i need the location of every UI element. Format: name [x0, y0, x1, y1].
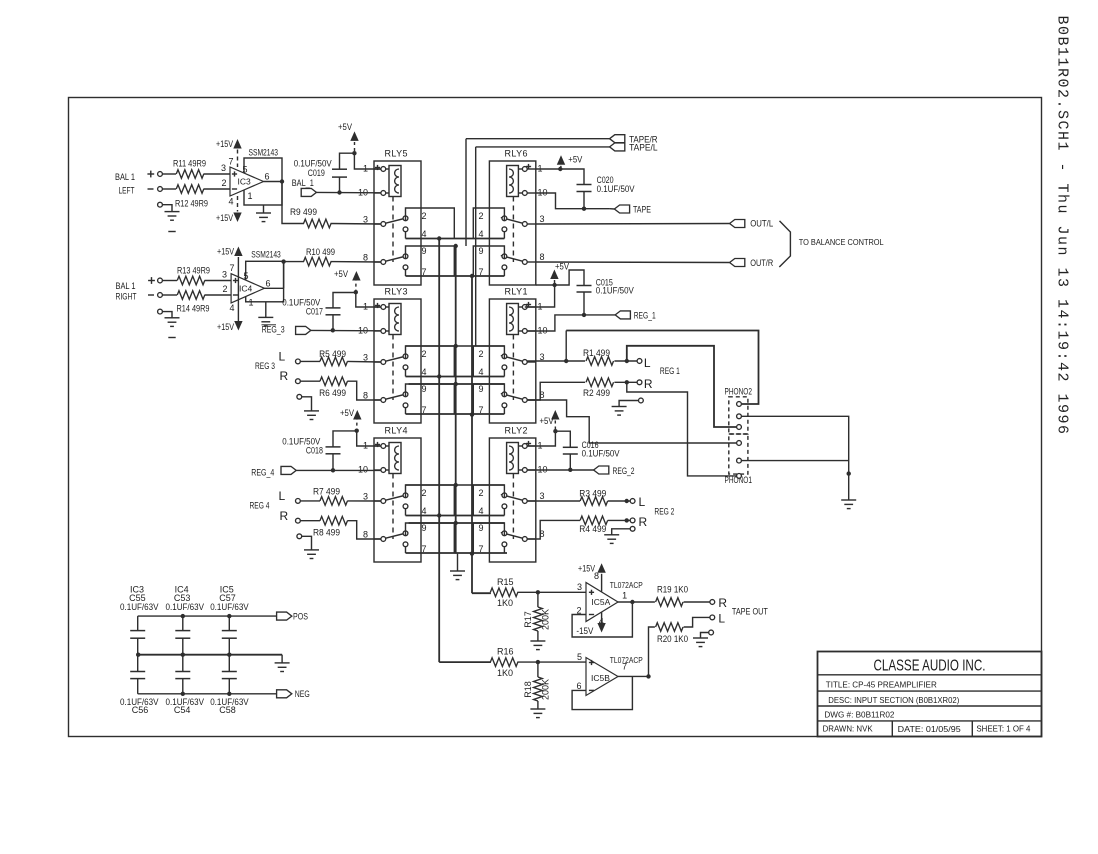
wire R to R6 [300, 380, 320, 382]
wire R19 to R terminal [684, 601, 710, 603]
+15V supply arrow top IC4 [234, 247, 242, 257]
svg-text:R6 499: R6 499 [319, 388, 346, 398]
wire RLY2 pin3 to R3 [527, 500, 580, 502]
svg-text:+5V: +5V [340, 408, 354, 418]
junction REG_4 cap [331, 468, 335, 472]
resistor R16 1K0 [490, 658, 517, 667]
svg-text:4: 4 [479, 229, 484, 239]
ground phono [841, 499, 856, 501]
ground stub terminal BAL1 right [158, 309, 163, 314]
resistor R17 200K [537, 592, 539, 607]
svg-text:+15V: +15V [216, 213, 233, 223]
wire R1 to L [614, 360, 637, 362]
resistor R1 499 [586, 357, 614, 366]
junction IC4 output corner [281, 259, 285, 263]
svg-text:RLY6: RLY6 [505, 149, 528, 159]
RLY3 pin 1 terminal [374, 306, 381, 308]
RLY1 outline [489, 299, 535, 423]
RLY6 pin 10 terminal [518, 192, 522, 194]
relay RLY6 [473, 149, 547, 286]
wire IC5B output [618, 675, 649, 677]
resistor R19 1K0 [656, 598, 684, 607]
junction mid C53 [181, 653, 185, 657]
svg-text:1: 1 [249, 298, 254, 308]
RLY2 pin 1 terminal [518, 445, 522, 447]
wire mid ground rail [138, 654, 282, 656]
RLY6 common pin 8 contact [527, 261, 536, 263]
+5V supply row3 right [551, 410, 559, 420]
wire IC4 output to R10 [264, 287, 283, 289]
terminal R REG4 [296, 518, 301, 523]
svg-text:6: 6 [576, 681, 581, 691]
junction bus B row3 upper [454, 483, 458, 487]
RLY3 pin 10 terminal [374, 330, 381, 332]
ground cap bank [281, 655, 283, 663]
svg-text:2: 2 [221, 178, 226, 188]
wire pin7 bus row2 [406, 413, 505, 415]
svg-text:PHONO2: PHONO2 [725, 387, 753, 397]
RLY5 common pin 3 contact [374, 223, 381, 225]
svg-text:REG_4: REG_4 [251, 467, 274, 477]
svg-text:L: L [639, 495, 646, 509]
svg-text:POS: POS [293, 612, 308, 622]
RLY5 contact circles upper [403, 216, 408, 221]
op-amp IC3 SSM2143 [228, 148, 282, 207]
wire R2 to R [614, 381, 637, 383]
svg-text:+15V: +15V [578, 563, 595, 573]
terminal R tape out [710, 600, 715, 605]
wire TAPE/R to bus C [466, 138, 610, 140]
svg-text:DRAWN: NVK: DRAWN: NVK [823, 723, 873, 733]
RLY2 armature link [512, 474, 514, 540]
junction bus D row1 [470, 274, 474, 278]
ground terminal REG4 [297, 534, 302, 539]
wire pin7 bus row3 [406, 552, 508, 554]
svg-text:R5 499: R5 499 [319, 349, 346, 359]
junction +5V row1 left [352, 151, 356, 155]
svg-text:SSM2143: SSM2143 [251, 250, 281, 260]
junction bus A row1 [437, 236, 441, 240]
port TAPE/R [610, 135, 625, 143]
svg-text:R13 49R9: R13 49R9 [177, 266, 210, 276]
ground terminal tape out [709, 630, 714, 635]
svg-text:7: 7 [622, 662, 627, 672]
title block desc row [818, 705, 1042, 707]
wire - input to R12 [162, 188, 176, 190]
svg-text:0.1UF/50V: 0.1UF/50V [597, 184, 635, 194]
title block title row [818, 690, 1042, 692]
wire L to R7 [300, 500, 320, 502]
RLY3 contact wiring box upper [406, 346, 455, 377]
+15V supply arrow bottom IC3 [233, 213, 241, 223]
svg-text:R: R [280, 509, 289, 523]
RLY6 contact wiring box lower [473, 246, 504, 276]
svg-text:R7 499: R7 499 [313, 487, 340, 497]
svg-text:3: 3 [363, 492, 368, 502]
svg-text:4: 4 [422, 367, 427, 377]
title block sheet cell [971, 721, 973, 737]
svg-text:C56: C56 [132, 705, 149, 715]
RLY1 contact wiring box lower [473, 384, 504, 414]
svg-text:4: 4 [479, 506, 484, 516]
ground tape out [693, 637, 708, 639]
svg-text:R9 499: R9 499 [290, 207, 317, 217]
ground BAL1 right [165, 317, 180, 319]
junction +5V RLY6 pin1 [558, 167, 562, 171]
svg-text:R10 499: R10 499 [306, 247, 335, 257]
svg-text:2: 2 [222, 284, 227, 294]
svg-text:+5V: +5V [540, 416, 554, 426]
junction L REG2 [625, 499, 629, 503]
wire + input to R11 [162, 173, 176, 175]
capacitor C53 [182, 616, 184, 631]
capacitor C54 [182, 655, 184, 672]
RLY5 outline [374, 161, 421, 285]
+15V supply arrow bottom IC4 [234, 321, 242, 331]
svg-text:IC5B: IC5B [591, 673, 610, 683]
RLY2 common pin 3 contact [527, 500, 536, 502]
RLY3 common pin 3 contact [374, 361, 381, 363]
RLY4 coil [389, 443, 401, 474]
terminal - (BAL1 right cold) [148, 294, 154, 296]
RLY4 outline [374, 438, 421, 562]
terminal R REG3 [296, 379, 301, 384]
RLY5 common pin 8 contact [374, 261, 381, 263]
svg-text:+5V: +5V [555, 261, 569, 271]
resistor R5 499 [320, 357, 348, 366]
wire IC5B feedback [572, 676, 632, 709]
svg-text:0.1UF/63V: 0.1UF/63V [210, 602, 249, 612]
svg-text:8: 8 [363, 253, 368, 263]
wire L to R5 [300, 360, 320, 362]
svg-text:8: 8 [540, 252, 545, 262]
RLY4 contact circles lower [403, 531, 408, 536]
junction R16 R18 [536, 660, 540, 664]
PHONO2 pin 3 [736, 424, 741, 429]
wire RLY1 pin8 to R2 [527, 382, 585, 400]
relay RLY5 [358, 149, 454, 286]
RLY2 contact circles lower [502, 531, 507, 536]
RLY1 pin 1 terminal [518, 306, 522, 308]
IC4 triangle [231, 274, 264, 303]
svg-text:4: 4 [479, 367, 484, 377]
svg-text:5: 5 [244, 271, 249, 281]
wire pin7 bus row1 [406, 275, 505, 277]
ground BAL1 left [165, 211, 180, 213]
resistor R13 49R9 [177, 276, 205, 285]
RLY1 coil [507, 304, 519, 335]
wire RLY2 pin1 to +5V [527, 431, 555, 446]
svg-text:R17: R17 [523, 611, 533, 628]
RLY2 coil [507, 443, 519, 474]
svg-text:R1 499: R1 499 [583, 348, 610, 358]
svg-text:+15V: +15V [217, 247, 234, 257]
RLY6 outline [489, 161, 535, 285]
wire R8 to RLY4 pin8 [347, 521, 381, 539]
svg-text:L: L [279, 350, 286, 364]
ground REG4 [304, 549, 319, 551]
op-amp IC5B TL072ACP [576, 655, 643, 696]
RLY1 common pin 3 contact [527, 361, 536, 363]
svg-text:BAL_1: BAL_1 [292, 178, 314, 188]
svg-text:2: 2 [479, 211, 484, 221]
PHONO2 pin 2 [737, 414, 742, 419]
vertical bus C tape R [465, 139, 467, 246]
svg-text:REG_3: REG_3 [262, 325, 285, 335]
wire R10 to RLY5 pin8 [331, 261, 381, 263]
svg-text:REG_1: REG_1 [634, 310, 656, 320]
svg-text:2: 2 [479, 488, 484, 498]
port OUT/L [730, 220, 745, 228]
wire BAL_1 to RLY5 pin10 [316, 191, 381, 193]
resistor R3 499 [580, 497, 608, 506]
svg-text:2: 2 [422, 488, 427, 498]
vertical bus D [471, 276, 473, 593]
svg-text:REG 4: REG 4 [250, 500, 270, 510]
RLY5 contact wiring box lower [406, 246, 455, 276]
RLY2 outline [489, 438, 535, 562]
wire R6 to RLY3 pin8 [347, 381, 381, 400]
wire + input to R13 [162, 280, 177, 282]
+15V supply arrow top IC3 [233, 139, 241, 149]
wire pin9 bus row2 [409, 383, 505, 385]
svg-text:10: 10 [358, 465, 368, 475]
svg-text:2: 2 [479, 349, 484, 359]
wire RLY6 pin10 to TAPE [536, 193, 610, 209]
svg-text:L: L [279, 489, 286, 503]
svg-text:TO BALANCE CONTROL: TO BALANCE CONTROL [799, 237, 884, 247]
svg-text:0.1UF/50V: 0.1UF/50V [582, 449, 620, 459]
svg-text:+5V: +5V [568, 154, 582, 164]
wire RLY6 pin1 to +5V [536, 168, 561, 170]
svg-text:BAL 1: BAL 1 [116, 281, 136, 291]
wire RLY6 bottom to +5V [536, 284, 555, 286]
port OUT/R [730, 259, 745, 267]
ground IC4 package [265, 302, 267, 318]
capacitor C017 0.1UF/50V [333, 293, 356, 308]
svg-text:0.1UF/63V: 0.1UF/63V [120, 602, 159, 612]
junction BAL_1 cap [337, 190, 341, 194]
wire IC5A output [618, 601, 655, 603]
junction bus D row3 [470, 551, 474, 555]
RLY1 contact circles lower [502, 392, 507, 397]
terminal L REG2 [630, 499, 635, 504]
wire R to R8 [300, 520, 320, 522]
svg-text:DATE: 01/05/95: DATE: 01/05/95 [898, 724, 961, 734]
svg-text:1: 1 [248, 191, 253, 201]
RLY4 pin 1 terminal [374, 445, 381, 447]
junction bus B row2 lower [454, 382, 458, 386]
svg-text:REG 2: REG 2 [654, 507, 674, 517]
resistor R9 499 [304, 219, 332, 228]
capacitor C020 0.1UF/50V [560, 169, 584, 185]
RLY3 armature link [392, 335, 394, 401]
svg-text:BAL 1: BAL 1 [115, 172, 135, 182]
wire R12 to IC3 pin2 [204, 188, 231, 190]
svg-text:1K0: 1K0 [497, 668, 513, 678]
resistor R8 499 [320, 516, 348, 525]
wire pin4 bus row3 [406, 515, 505, 517]
svg-text:CLASSE AUDIO INC.: CLASSE AUDIO INC. [874, 658, 986, 675]
svg-text:R2 499: R2 499 [583, 388, 610, 398]
svg-text:9: 9 [422, 523, 427, 533]
capacitor C016 0.1UF/50V [555, 431, 570, 447]
svg-text:R: R [644, 377, 653, 391]
svg-text:SHEET: 1 OF 4: SHEET: 1 OF 4 [976, 723, 1030, 733]
svg-text:RIGHT: RIGHT [116, 292, 137, 302]
junction bus B row2 upper [454, 344, 458, 348]
svg-text:9: 9 [422, 384, 427, 394]
resistor R4 499 [580, 516, 608, 525]
wire phono2 pin2 to ground [742, 416, 849, 500]
wire R16 to IC5B pin5 [517, 661, 586, 663]
wire RLY2 pin8 to R4 [527, 520, 580, 539]
junction NEG C54 [181, 692, 185, 696]
RLY2 contact wiring box upper [473, 485, 504, 516]
svg-text:1K0: 1K0 [497, 598, 513, 608]
port POS [277, 612, 292, 620]
relay RLY3 [358, 287, 454, 424]
terminal + (BAL1 right hot) [148, 280, 155, 282]
wire R20 to IC5B output [649, 627, 655, 676]
svg-text:RLY4: RLY4 [385, 426, 408, 436]
wire R4 to R [608, 519, 631, 521]
RLY4 contact wiring box upper [406, 485, 455, 516]
capacitor C56 [137, 655, 139, 672]
wire REG_3 to RLY3 pin10 [311, 329, 381, 331]
RLY3 contact circles lower [403, 392, 408, 397]
svg-text:+15V: +15V [217, 322, 234, 332]
wire R to phono1 pin6 [627, 382, 736, 476]
svg-text:REG 3: REG 3 [255, 361, 275, 371]
junction bus B row3 lower [454, 521, 458, 525]
junction +5V row3 left [355, 429, 359, 433]
relay RLY2 [473, 426, 547, 563]
svg-text:SSM2143: SSM2143 [249, 148, 279, 158]
relay RLY1 [473, 287, 547, 424]
svg-text:4: 4 [422, 506, 427, 516]
RLY1 common pin 8 contact [527, 399, 536, 401]
junction R REG2 [625, 518, 629, 522]
wire pin4 bus row1 [406, 238, 505, 240]
wire POS rail [138, 615, 277, 617]
svg-text:C018: C018 [306, 446, 323, 456]
svg-text:200K: 200K [541, 609, 551, 630]
svg-text:0.1UF/50V: 0.1UF/50V [596, 286, 634, 296]
vertical bus E tape L [475, 147, 477, 346]
svg-text:C54: C54 [174, 705, 191, 715]
wire R15 to IC5A pin3 [517, 591, 538, 593]
drawing border frame [69, 98, 1042, 737]
svg-text:4: 4 [229, 303, 234, 313]
RLY2 pin 10 terminal [518, 469, 522, 471]
relay RLY4 [358, 426, 454, 563]
capacitor C015 0.1UF/50V [555, 270, 584, 286]
capacitor C58 [228, 655, 230, 672]
svg-text:DWG #: B0B11R02: DWG #: B0B11R02 [824, 710, 894, 720]
resistor R14 49R9 [177, 291, 205, 300]
svg-text:LEFT: LEFT [119, 186, 135, 196]
svg-text:IC5A: IC5A [591, 597, 610, 607]
wire NEG rail [138, 693, 277, 695]
RLY1 pin 10 terminal [518, 330, 522, 332]
wire RLY1 pin3 to R1 [527, 360, 585, 362]
vertical bus B [455, 246, 457, 554]
svg-text:+5V: +5V [334, 269, 348, 279]
op-amp IC4 SSM2143 [229, 250, 283, 314]
svg-text:5: 5 [243, 165, 248, 175]
RLY5 contact wiring box upper [406, 208, 455, 239]
ground IC3 package [263, 205, 265, 213]
+15V rail through IC4 [237, 257, 239, 322]
svg-text:6: 6 [265, 172, 270, 182]
ground terminal REG1 [639, 398, 644, 403]
RLY5 pin 10 terminal [374, 192, 381, 194]
wire R7 to RLY4 pin3 [347, 500, 381, 502]
bracket to balance control [779, 221, 790, 267]
RLY4 contact wiring box lower [406, 523, 455, 553]
wire RLY1 pin8 ext to phono1 pin4 [527, 400, 736, 443]
svg-text:3: 3 [222, 270, 227, 280]
wire pin9 bus row3 [409, 522, 505, 524]
RLY4 armature link [392, 474, 394, 540]
capacitor C55 [137, 616, 139, 631]
junction phono ground [847, 471, 851, 475]
connector PHONO2 [725, 387, 753, 435]
svg-text:3: 3 [540, 491, 545, 501]
svg-text:6: 6 [266, 279, 271, 289]
svg-text:OUT/L: OUT/L [750, 219, 773, 229]
wire R14 to IC4 pin2 [205, 294, 232, 296]
svg-text:NEG: NEG [295, 689, 310, 699]
ground R18 [530, 708, 545, 710]
junction POS C53 [181, 614, 185, 618]
ground terminal REG2 [630, 526, 635, 531]
terminal R REG2 [630, 518, 635, 523]
IC3 triangle [230, 167, 264, 196]
ground center bus [457, 554, 459, 571]
wire IC5A feedback [572, 602, 632, 637]
svg-text:1: 1 [622, 591, 627, 601]
title block [818, 652, 1042, 737]
svg-text:RLY5: RLY5 [385, 149, 408, 159]
svg-text:R: R [718, 596, 727, 610]
RLY3 coil [389, 304, 401, 335]
+5V supply row1 right [557, 155, 565, 165]
svg-text:RLY3: RLY3 [385, 287, 408, 297]
terminal L tape out [710, 615, 715, 620]
wire RLY2 pin10 to REG_2 [527, 469, 593, 471]
RLY5 pin 1 terminal [374, 168, 381, 170]
RLY6 pin 1 terminal [518, 168, 522, 170]
port TAPE [614, 205, 629, 213]
RLY3 outline [374, 299, 421, 423]
svg-text:B0B11R02.SCH1 - Thu Jun 13 14:: B0B11R02.SCH1 - Thu Jun 13 14:19:42 1996 [1054, 16, 1071, 436]
svg-text:9: 9 [479, 523, 484, 533]
junction bus A row3 [437, 513, 441, 517]
svg-text:TL072ACP: TL072ACP [610, 580, 643, 590]
wire +5V to RLY5 pin1 [354, 153, 381, 169]
junction R15 R17 [536, 590, 540, 594]
port NEG [277, 690, 292, 698]
PHONO1 pin 4 [737, 441, 742, 446]
svg-text:R14 49R9: R14 49R9 [177, 304, 210, 314]
wire RLY1 pin10 to REG_1 [527, 315, 615, 331]
svg-text:R16: R16 [497, 647, 514, 657]
resistor R15 1K0 [490, 588, 517, 597]
svg-text:8: 8 [363, 391, 368, 401]
junction bus D row2 [470, 412, 474, 416]
